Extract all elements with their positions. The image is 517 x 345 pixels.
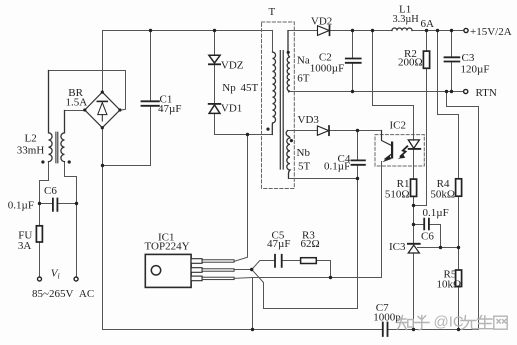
svg-text:3A: 3A (18, 240, 32, 252)
terminal Vi right (74, 277, 78, 281)
fuse FU (36, 226, 42, 242)
svg-text:C6: C6 (421, 231, 434, 243)
svg-text:6A: 6A (421, 18, 435, 30)
svg-text:C3: C3 (462, 52, 475, 64)
svg-text:TOP224Y: TOP224Y (145, 241, 190, 253)
capacitor C5 (275, 255, 282, 267)
wire source to ground bus (252, 278, 254, 330)
svg-text:+15V/2A: +15V/2A (470, 26, 512, 38)
svg-text:50kΩ: 50kΩ (430, 189, 455, 201)
wire C4 vertical (357, 131, 359, 179)
svg-text:6T: 6T (297, 73, 310, 85)
svg-text:VD1: VD1 (221, 103, 242, 115)
IC1 pin control (191, 268, 202, 273)
wire L1 to +15V terminal (412, 30, 464, 32)
svg-text:33mH: 33mH (17, 144, 45, 156)
resistor R2 (423, 51, 429, 68)
wire +15V to R4 (438, 31, 459, 179)
wire control feedback loop (252, 179, 358, 309)
wire C6 row (40, 203, 77, 205)
IC2 phototransistor (382, 131, 393, 146)
svg-text:1000µF: 1000µF (310, 62, 344, 74)
wire LED feed from C2 node (373, 31, 414, 135)
wire L2 left bottom jog (40, 162, 49, 204)
wire VD3 row and opto collector (288, 130, 382, 132)
svg-text:RTN: RTN (476, 87, 497, 99)
wire source pin run (234, 277, 382, 280)
svg-text:0.1µF: 0.1µF (324, 161, 350, 173)
inductor L2 common mode choke (49, 71, 53, 162)
transformer bias winding Nb (286, 131, 290, 179)
svg-text:85~265V AC: 85~265V AC (32, 288, 94, 300)
diode VD3 (317, 126, 328, 135)
IC1 pin source (191, 276, 202, 281)
wire bottom ground bus right of C7 (387, 329, 478, 331)
svg-text:Vi: Vi (51, 267, 60, 280)
wire drain vertical (235, 135, 248, 262)
svg-text:45T: 45T (241, 82, 259, 94)
svg-text:Na: Na (297, 55, 310, 67)
resistor R4 (456, 179, 462, 196)
wire fuse branch to left AC terminal (39, 204, 41, 278)
svg-text:C6: C6 (44, 185, 57, 197)
svg-text:47µF: 47µF (267, 238, 290, 250)
wire C1 branch (103, 31, 151, 166)
svg-text:Np: Np (222, 82, 236, 94)
wire top DC bus primary (103, 30, 273, 32)
resistor R3 (301, 258, 317, 264)
svg-text:VD3: VD3 (298, 114, 320, 126)
wire bridge bottom to primary ground (102, 128, 104, 330)
svg-text:0.1µF: 0.1µF (8, 199, 34, 211)
IC2 light arrow (401, 146, 408, 156)
wire C3 vertical (451, 31, 453, 92)
svg-text:3.3µH: 3.3µH (393, 14, 420, 25)
capacitor C2 (346, 59, 361, 63)
resistor R5 (456, 270, 462, 287)
diode VDZ (209, 55, 220, 63)
transformer primary winding Np (272, 52, 275, 135)
svg-text:47µF: 47µF (158, 103, 181, 115)
capacitor C3 (445, 57, 460, 61)
svg-text:10kΩ: 10kΩ (437, 279, 462, 291)
bridge rectifier BR (85, 92, 120, 128)
wire R2 branch (414, 31, 427, 206)
transformer core (280, 51, 283, 169)
wire C2 vertical (352, 31, 354, 92)
IC1 pin drain (191, 259, 202, 264)
winding polarity dots (41, 160, 44, 163)
wire R4 to R5 chain (458, 196, 460, 329)
wire Nb return to C4 node (289, 178, 358, 180)
capacitor C6 compensation (424, 219, 429, 230)
optocoupler IC2 box (375, 135, 424, 166)
svg-text:200Ω: 200Ω (398, 57, 423, 69)
svg-text:IC3: IC3 (389, 241, 406, 253)
svg-text:Nb: Nb (297, 147, 311, 159)
wire L2 right bottom jog (65, 162, 77, 204)
diode VD1 (209, 103, 221, 105)
wire LED to R1 to IC3 (413, 166, 415, 330)
resistor R1 (411, 179, 417, 196)
transistor IC1 TOP224Y package (145, 254, 191, 287)
svg-text:510Ω: 510Ω (385, 189, 410, 201)
wire left vertical bridge to top bus (102, 31, 104, 93)
svg-text:T: T (269, 6, 276, 18)
svg-text:1000p: 1000p (373, 312, 401, 324)
wire right AC terminal vertical (76, 204, 78, 278)
capacitor C4 (352, 160, 365, 164)
transformer secondary winding Na (287, 31, 290, 92)
wire opto emitter vertical (381, 166, 383, 278)
capacitor C6 input (53, 199, 58, 211)
svg-text:0.1µF: 0.1µF (423, 207, 449, 219)
shunt regulator IC3 (408, 243, 420, 245)
svg-text:IC2: IC2 (390, 119, 407, 131)
wire AC input to bridge left vertex (65, 111, 85, 133)
wire compensation C6 row (414, 225, 441, 248)
svg-text:VDZ: VDZ (221, 59, 244, 71)
svg-text:62Ω: 62Ω (301, 238, 320, 250)
svg-text:5T: 5T (298, 160, 311, 172)
wire RTN to secondary ground (447, 92, 479, 330)
svg-text:L2: L2 (25, 132, 37, 144)
wire reference line (418, 247, 459, 249)
capacitor C7 (383, 323, 388, 337)
capacitor C1 (142, 101, 159, 106)
terminal RTN (464, 89, 468, 93)
wire AC input overhead to bridge right vertex (49, 71, 126, 111)
wire control pin to C5 (234, 261, 331, 278)
svg-text:1.5A: 1.5A (66, 97, 88, 109)
transformer T dashed box (262, 22, 295, 189)
wire RTN rail (289, 91, 464, 93)
watermark (397, 316, 507, 330)
wire primary top corner (272, 30, 274, 52)
svg-text:VD2: VD2 (311, 16, 332, 28)
terminal +15V (464, 28, 468, 32)
wire secondary top rail with VD2 (288, 30, 392, 32)
IC2 LED (413, 135, 415, 166)
inductor L1 (392, 28, 412, 31)
wire bottom ground bus left of C7 (103, 329, 383, 331)
svg-text:120µF: 120µF (461, 64, 490, 76)
svg-text:@IC: @IC (434, 314, 464, 331)
wire clamp branch VDZ VD1 (215, 31, 273, 135)
diode VD2 (318, 26, 330, 36)
terminal Vi left (38, 277, 42, 281)
